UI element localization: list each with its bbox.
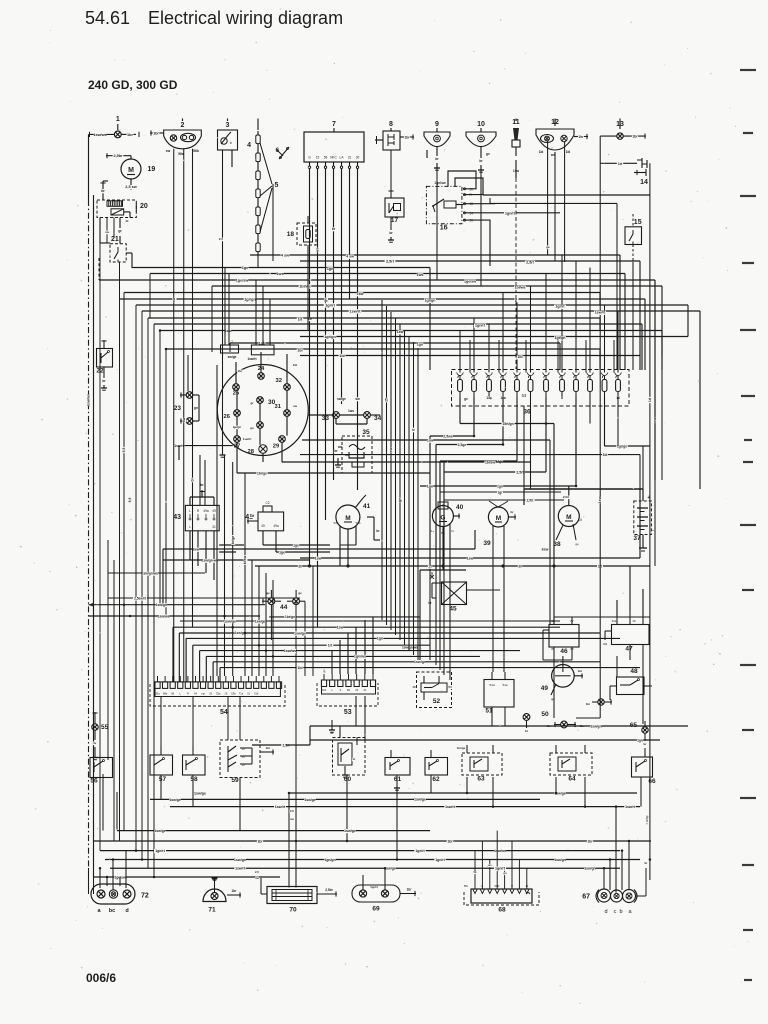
svg-text:1br: 1br <box>238 369 244 373</box>
svg-text:1ge/sw: 1ge/sw <box>464 280 476 284</box>
svg-text:1sw/gn: 1sw/gn <box>234 858 246 862</box>
svg-text:1bl: 1bl <box>297 666 302 670</box>
svg-text:ws: ws <box>488 864 492 867</box>
svg-text:2: 2 <box>181 122 185 129</box>
left drops to band C <box>94 792 118 841</box>
svg-text:6sw: 6sw <box>542 547 549 551</box>
mid links <box>420 422 650 625</box>
switch 58 <box>183 746 206 790</box>
wires into 68 <box>473 831 527 883</box>
svg-text:46: 46 <box>560 648 568 655</box>
svg-text:br/ge: br/ge <box>231 536 235 544</box>
svg-text:31: 31 <box>212 525 216 529</box>
bus 566 and 47 wires <box>255 565 650 618</box>
svg-text:sw/ge: sw/ge <box>337 397 346 401</box>
gauge 28 <box>248 445 268 455</box>
svg-text:15rt/gn: 15rt/gn <box>502 422 513 426</box>
svg-text:1sw/gn: 1sw/gn <box>590 725 601 729</box>
band A left corner drops and bundle <box>99 258 230 877</box>
flasher unit 43 <box>173 505 219 530</box>
svg-text:1sw/rt: 1sw/rt <box>235 867 246 871</box>
drops to cluster stubs <box>225 268 270 346</box>
svg-text:D-: D- <box>451 529 454 533</box>
battery 37 <box>633 489 654 551</box>
lamp 27 <box>234 436 241 450</box>
svg-text:38: 38 <box>553 541 561 548</box>
svg-text:30: 30 <box>298 565 302 569</box>
svg-text:L: L <box>189 525 191 529</box>
switch 48 <box>610 668 652 700</box>
svg-text:1sw/rt: 1sw/rt <box>625 805 636 809</box>
svg-text:gn: gn <box>194 406 198 410</box>
svg-text:28: 28 <box>248 449 255 455</box>
wire 15 down <box>633 262 643 489</box>
lamp 26 <box>224 410 241 420</box>
svg-text:1bl: 1bl <box>517 355 522 359</box>
svg-text:30: 30 <box>356 156 360 160</box>
svg-text:b: b <box>230 141 232 145</box>
svg-text:1sw/gn/ws: 1sw/gn/ws <box>402 645 418 649</box>
svg-text:sw: sw <box>389 447 393 452</box>
svg-text:2,5rt: 2,5rt <box>386 259 395 263</box>
lamp 55 <box>92 724 109 758</box>
svg-text:1br: 1br <box>587 839 593 843</box>
svg-text:10: 10 <box>477 121 485 128</box>
svg-text:18: 18 <box>287 231 295 238</box>
svg-text:1sw/gn-ws: 1sw/gn-ws <box>202 559 219 563</box>
svg-text:4: 4 <box>247 142 251 149</box>
lamps 44 <box>262 590 305 611</box>
svg-text:1sw/rt: 1sw/rt <box>350 309 362 313</box>
svg-text:48: 48 <box>630 668 638 675</box>
right misc verticals <box>655 356 662 567</box>
lamp 30 <box>250 397 276 406</box>
fuse holder 18 <box>287 216 316 252</box>
svg-text:1sw/gn/ws: 1sw/gn/ws <box>142 571 158 575</box>
svg-text:bc: bc <box>109 908 115 914</box>
svg-text:49a: 49a <box>203 509 209 513</box>
ground bars <box>92 168 484 880</box>
svg-text:1X: 1X <box>578 518 583 522</box>
resistor 70 <box>254 870 337 914</box>
svg-text:NFC: NFC <box>330 156 337 160</box>
svg-text:40: 40 <box>456 504 464 511</box>
svg-text:5: 5 <box>275 182 279 189</box>
svg-text:1sw: 1sw <box>467 556 474 560</box>
svg-text:bl: bl <box>191 478 195 481</box>
svg-text:1sw: 1sw <box>357 292 364 296</box>
svg-text:1gn/gn: 1gn/gn <box>324 858 335 862</box>
unit 45 <box>428 572 467 613</box>
svg-text:C2: C2 <box>265 501 269 505</box>
links near 46 47 <box>543 617 650 660</box>
switch 21 <box>110 236 126 299</box>
svg-text:15: 15 <box>385 398 389 402</box>
svg-text:1gr/rt: 1gr/rt <box>555 305 565 309</box>
connector 72 <box>91 884 149 914</box>
generator 40 <box>430 502 464 570</box>
svg-text:58b: 58b <box>163 692 168 696</box>
svg-text:64: 64 <box>568 776 576 783</box>
wires at 16 <box>448 171 560 266</box>
svg-text:sw: sw <box>182 417 186 422</box>
glow plugs 4/5/6 <box>247 119 289 258</box>
svg-text:1gn: 1gn <box>637 739 643 743</box>
svg-text:1br: 1br <box>257 839 263 843</box>
lamp 13 <box>600 119 646 140</box>
connector 14 <box>605 158 648 186</box>
svg-text:1br: 1br <box>153 132 159 136</box>
svg-text:G: G <box>440 515 445 522</box>
wires left column top <box>89 134 133 877</box>
glow chain to bus <box>258 184 273 268</box>
svg-text:1sw/rt: 1sw/rt <box>595 311 606 315</box>
drops below 53 and 51 <box>356 696 505 740</box>
svg-text:53: 53 <box>344 709 352 716</box>
svg-text:1br/ge: 1br/ge <box>457 746 466 750</box>
svg-text:sw: sw <box>355 397 360 401</box>
svg-text:1ge/sw: 1ge/sw <box>236 278 249 282</box>
svg-text:bl: bl <box>126 219 129 223</box>
svg-text:1gn: 1gn <box>377 637 383 641</box>
svg-text:8: 8 <box>389 121 393 128</box>
band B wires <box>89 603 641 682</box>
svg-text:49: 49 <box>212 509 216 513</box>
lamp at 48 <box>585 699 612 706</box>
cluster to 54 verticals <box>225 455 274 676</box>
svg-text:1gr/gn: 1gr/gn <box>324 335 336 339</box>
wire 18 to bus <box>307 252 309 331</box>
motor 19 <box>106 153 155 190</box>
svg-text:1sw/ge: 1sw/ge <box>414 798 426 802</box>
right upper links <box>483 190 650 369</box>
svg-text:31b: 31b <box>254 692 259 696</box>
svg-text:ge: ge <box>324 298 328 302</box>
svg-text:15: 15 <box>428 565 432 569</box>
wires above bottom row <box>310 725 688 746</box>
mid verticals below 40 <box>430 570 450 680</box>
svg-text:ge: ge <box>486 152 490 156</box>
switch 56 <box>90 758 113 785</box>
svg-text:2,5: 2,5 <box>255 870 259 874</box>
svg-text:1sw/gn: 1sw/gn <box>584 867 596 871</box>
svg-text:1sw/rt: 1sw/rt <box>247 357 257 361</box>
lamps 33 34 <box>308 409 382 424</box>
svg-text:1sw/ge: 1sw/ge <box>304 798 315 802</box>
svg-text:ge: ge <box>575 542 579 546</box>
svg-text:49a: 49a <box>273 524 279 528</box>
svg-text:1ge: 1ge <box>279 551 285 555</box>
svg-text:1sw: 1sw <box>598 496 602 503</box>
svg-text:1ge/sw: 1ge/sw <box>434 181 446 185</box>
svg-text:1bl: 1bl <box>293 363 298 367</box>
svg-text:Electrical wiring diagram: Electrical wiring diagram <box>148 8 343 28</box>
svg-text:67: 67 <box>582 894 590 901</box>
connector 54 <box>150 676 285 716</box>
svg-text:1sw/ge: 1sw/ge <box>224 619 236 623</box>
svg-text:30: 30 <box>632 619 636 623</box>
svg-text:58R: 58R <box>495 884 500 888</box>
svg-text:M: M <box>566 514 571 521</box>
svg-text:1gr/gn: 1gr/gn <box>244 297 256 301</box>
svg-text:lgr/gn: lgr/gn <box>233 425 241 429</box>
lamp pod 10 <box>466 121 496 170</box>
switch 57 <box>150 746 173 790</box>
svg-text:2: 2 <box>231 340 233 344</box>
svg-text:54: 54 <box>448 685 452 689</box>
svg-text:R: R <box>511 884 513 888</box>
bottom region verticals <box>161 775 641 860</box>
svg-text:1sw/ge: 1sw/ge <box>169 798 180 802</box>
svg-text:1ge/rt: 1ge/rt <box>155 849 166 853</box>
svg-text:gr: gr <box>118 229 122 233</box>
svg-text:20: 20 <box>140 203 148 210</box>
verticals 39 to 51 <box>493 558 504 672</box>
svg-text:31: 31 <box>348 156 352 160</box>
misc long verticals 2 <box>100 218 640 851</box>
lamp pod 12 <box>536 119 588 158</box>
more fuse outlet verticals <box>524 397 618 489</box>
wires 6sw 1sw <box>163 489 640 604</box>
svg-text:31: 31 <box>275 404 282 410</box>
svg-text:1bl: 1bl <box>566 150 571 154</box>
svg-text:26: 26 <box>224 414 231 420</box>
switch 63 <box>456 745 502 783</box>
svg-text:1: 1 <box>116 116 120 123</box>
wire 56 down <box>92 712 103 831</box>
verticals below 47 <box>617 645 643 725</box>
svg-text:1rt: 1rt <box>603 642 607 646</box>
lamp 25 <box>233 384 240 397</box>
bus band C wires <box>94 792 652 880</box>
svg-text:1bl: 1bl <box>297 349 302 353</box>
svg-text:71a: 71a <box>239 692 244 696</box>
svg-text:ge: ge <box>266 591 270 595</box>
extra mid links <box>440 491 564 503</box>
wire 8 to 17 <box>390 150 392 190</box>
svg-text:-: - <box>652 528 654 534</box>
svg-text:49: 49 <box>541 685 549 692</box>
svg-text:2,5br: 2,5br <box>113 154 123 158</box>
unit 35 <box>334 429 372 473</box>
svg-text:gn: gn <box>250 426 254 430</box>
right verticals taller <box>655 280 662 480</box>
svg-text:31b: 31b <box>322 688 327 692</box>
svg-text:M: M <box>128 167 134 174</box>
lamp unit 69 <box>352 868 416 912</box>
wires into fuse box <box>460 255 618 373</box>
svg-text:16: 16 <box>440 225 448 232</box>
wires into 72 <box>89 851 127 894</box>
svg-text:69: 69 <box>372 906 380 913</box>
svg-text:1sw/ws: 1sw/ws <box>87 394 91 406</box>
wires into 67 <box>604 807 650 893</box>
wires at 43 <box>190 483 214 580</box>
wire 60 up <box>174 676 340 738</box>
unit 51 <box>484 672 514 720</box>
svg-text:1sw/gn: 1sw/gn <box>156 603 168 607</box>
svg-text:1sw/rt: 1sw/rt <box>243 437 252 441</box>
svg-text:sw: sw <box>514 297 518 302</box>
svg-text:53b: 53b <box>355 521 360 525</box>
ignition switch 16 <box>426 186 473 231</box>
wires into 70 <box>289 793 296 888</box>
relay 20 <box>97 200 148 218</box>
svg-text:1br: 1br <box>404 136 410 140</box>
svg-text:1gn/rt: 1gn/rt <box>475 324 486 328</box>
svg-text:sw: sw <box>653 417 657 422</box>
svg-text:M: M <box>496 515 501 522</box>
svg-text:1bl/ws: 1bl/ws <box>515 286 526 290</box>
svg-text:006/6: 006/6 <box>86 971 116 985</box>
svg-text:1br: 1br <box>632 135 638 139</box>
svg-text:1gn: 1gn <box>427 484 433 488</box>
svg-text:53b: 53b <box>231 692 236 696</box>
sensor 3 <box>218 119 238 168</box>
band A right corner drops <box>430 255 700 489</box>
svg-text:54.61: 54.61 <box>85 8 130 28</box>
svg-text:L: L <box>189 509 191 513</box>
svg-text:1gr/rt: 1gr/rt <box>325 303 335 307</box>
drops from 54 to bottom switches <box>161 605 271 746</box>
svg-text:21: 21 <box>111 236 119 243</box>
svg-text:1sw/gn: 1sw/gn <box>414 660 426 664</box>
svg-text:23: 23 <box>174 405 182 412</box>
svg-text:1sw/ge: 1sw/ge <box>294 631 306 635</box>
wires into 53 <box>330 617 373 735</box>
svg-text:33: 33 <box>322 415 330 422</box>
connector 68 <box>464 883 539 914</box>
svg-text:49: 49 <box>261 524 265 528</box>
svg-text:240 GD, 300 GD: 240 GD, 300 GD <box>88 78 178 92</box>
svg-text:1br: 1br <box>232 889 238 893</box>
svg-text:1br: 1br <box>578 669 584 673</box>
additional wire labels <box>87 248 658 871</box>
svg-text:2,5ws: 2,5ws <box>443 435 452 439</box>
svg-text:1ge: 1ge <box>242 266 249 270</box>
svg-text:D+: D+ <box>430 529 434 533</box>
wires under 20 <box>105 218 129 244</box>
lamp 29 <box>273 436 286 450</box>
svg-text:2,5rt: 2,5rt <box>526 261 534 265</box>
svg-text:63: 63 <box>477 776 485 783</box>
svg-text:43: 43 <box>173 514 181 521</box>
right of cluster vertical bundle <box>382 300 418 660</box>
svg-text:56: 56 <box>90 778 98 785</box>
svg-text:32: 32 <box>276 378 282 384</box>
svg-text:56b: 56b <box>193 149 199 153</box>
connector 67 <box>582 861 648 915</box>
svg-text:1gr/gn: 1gr/gn <box>425 299 436 303</box>
lamp 24 <box>258 366 265 379</box>
svg-text:1sw/rt: 1sw/rt <box>445 805 456 809</box>
svg-text:25: 25 <box>233 391 240 397</box>
lamp 31 <box>275 404 298 416</box>
svg-text:1br/ge: 1br/ge <box>257 472 267 476</box>
svg-text:ge: ge <box>546 245 550 249</box>
svg-text:sw: sw <box>105 230 110 234</box>
flasher 22 <box>96 340 112 388</box>
fuse box 36 <box>452 370 630 416</box>
switch 66 <box>632 757 656 790</box>
svg-text:59: 59 <box>231 777 239 784</box>
svg-text:56a: 56a <box>178 152 184 156</box>
svg-text:1sw: 1sw <box>337 626 344 630</box>
wires below fuse box <box>460 397 605 486</box>
lamp centre lower <box>250 422 263 431</box>
svg-text:1ws: 1ws <box>417 273 424 277</box>
svg-text:1br: 1br <box>578 135 584 139</box>
svg-text:1br: 1br <box>447 839 453 843</box>
svg-text:1br/gn: 1br/gn <box>285 615 295 619</box>
svg-text:54a: 54a <box>489 683 494 687</box>
svg-text:30: 30 <box>518 565 522 569</box>
svg-text:sw: sw <box>293 404 298 408</box>
svg-text:72: 72 <box>141 893 149 900</box>
svg-text:58: 58 <box>324 156 328 160</box>
svg-text:1sw/ws: 1sw/ws <box>158 614 170 618</box>
svg-text:sw/ge: sw/ge <box>228 355 237 359</box>
svg-text:b: b <box>619 909 622 915</box>
svg-text:1sw/ge: 1sw/ge <box>344 829 356 833</box>
switch 15 <box>625 214 642 262</box>
svg-text:9,5: 9,5 <box>122 448 126 453</box>
svg-text:54a: 54a <box>502 683 507 687</box>
svg-text:1bl: 1bl <box>250 514 255 518</box>
wire 44 right down <box>296 566 313 888</box>
lamp pod 9 <box>424 121 450 185</box>
connector 53 <box>317 662 378 716</box>
wires at 45 <box>420 570 500 660</box>
svg-text:2,5br: 2,5br <box>325 888 333 892</box>
svg-text:1sw/ge: 1sw/ge <box>194 791 206 795</box>
switch 61 <box>385 750 410 788</box>
svg-text:c amp: c amp <box>645 815 649 824</box>
svg-text:1ws: 1ws <box>348 409 354 413</box>
horn 49 <box>541 665 583 702</box>
connector 11 <box>512 119 520 179</box>
svg-text:71: 71 <box>208 907 216 914</box>
svg-text:2,5rt: 2,5rt <box>516 471 524 475</box>
bus band A wires <box>99 253 700 358</box>
wire 11 down dashed <box>515 178 517 369</box>
svg-text:1br: 1br <box>266 746 272 750</box>
speedometer motor 41 <box>333 495 370 529</box>
extra fuse feed wires <box>470 340 614 373</box>
wire 13 down <box>576 136 605 718</box>
svg-text:1gr: 1gr <box>498 491 504 495</box>
switch 62 <box>425 750 448 783</box>
svg-text:7: 7 <box>332 121 336 128</box>
svg-text:34: 34 <box>374 415 382 422</box>
headlamp 2 <box>150 119 201 157</box>
svg-text:ge: ge <box>464 397 468 401</box>
wire from 3 down <box>218 150 224 455</box>
svg-text:1bl: 1bl <box>539 150 544 154</box>
wires at 42 <box>163 531 330 563</box>
motor 39 <box>483 501 516 558</box>
svg-text:1bl/ws: 1bl/ws <box>299 284 311 288</box>
svg-text:9: 9 <box>435 121 439 128</box>
svg-text:54: 54 <box>220 709 228 716</box>
svg-text:1br: 1br <box>407 888 413 892</box>
svg-text:57: 57 <box>159 776 167 783</box>
svg-text:1sw/gn: 1sw/gn <box>554 858 566 862</box>
svg-text:ge: ge <box>298 591 302 595</box>
unit 47 <box>602 610 649 653</box>
wires from headlamp 2 down <box>174 149 193 682</box>
svg-text:1bl/sw: 1bl/sw <box>485 461 496 465</box>
